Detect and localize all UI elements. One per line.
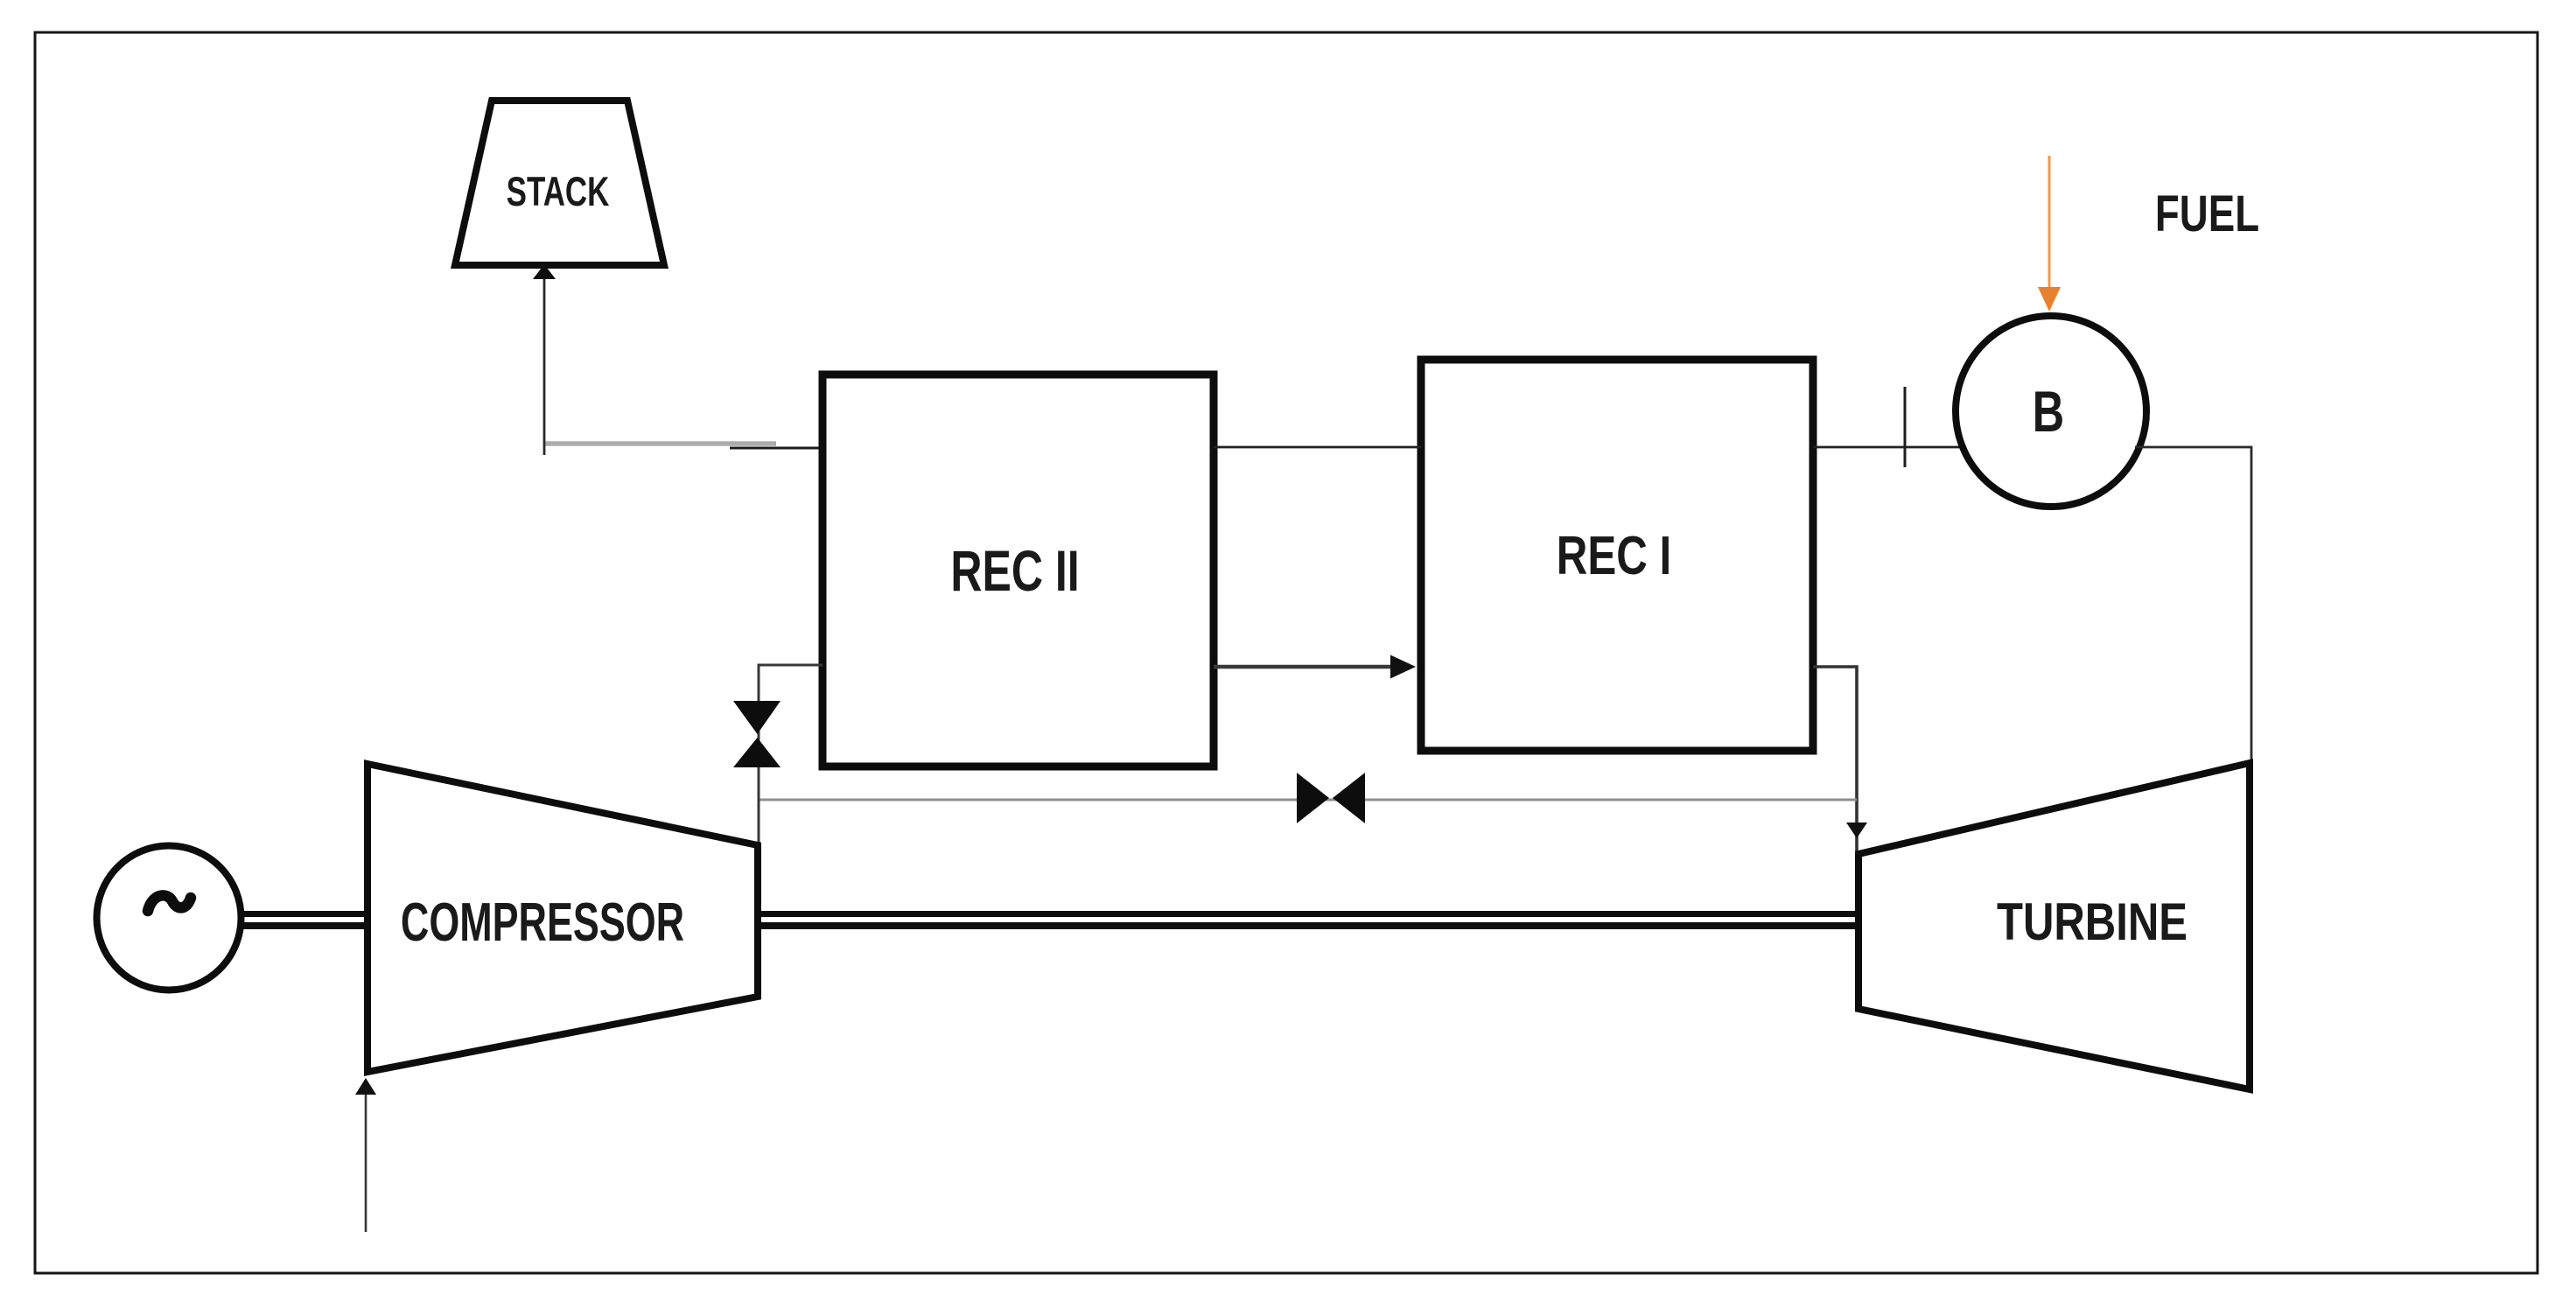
wire: REC I to burner B: [1813, 446, 1969, 449]
wire: REC II exhaust to stack (gray segment): [544, 441, 776, 446]
turbine (trapezoid): [1858, 763, 2250, 1089]
wire: burner B to turbine inlet: [2135, 447, 2251, 761]
bypass valve (horizontal bowtie): [1297, 773, 1329, 823]
wire: REC II to REC I (upper gas line): [1214, 446, 1421, 449]
arrowhead into turbine: [1846, 822, 1867, 838]
generator tilde: [148, 895, 191, 911]
heat exchanger REC II: [822, 374, 1214, 766]
svg-text:COMPRESSOR: COMPRESSOR: [401, 892, 684, 953]
compressor (trapezoid): [367, 764, 758, 1072]
svg-text:REC II: REC II: [950, 539, 1079, 603]
air inlet arrowhead: [355, 1078, 376, 1095]
svg-text:B: B: [2033, 381, 2064, 444]
wire: REC II to REC I (lower air line with arrow): [1214, 665, 1393, 669]
burner B (circle): [1956, 316, 2146, 507]
wire: REC I outlet down to turbine: [1813, 667, 1857, 852]
generator (circle with ~): [97, 846, 241, 990]
tick mark on burner inlet line: [1904, 387, 1907, 467]
bypass line (thin gray): [758, 799, 1857, 801]
shaft: compressor to turbine (double line): [758, 911, 1858, 917]
air inlet line: [365, 1094, 367, 1232]
arrowhead into REC I: [1390, 655, 1416, 679]
svg-text:REC I: REC I: [1557, 525, 1671, 586]
svg-text:TURBINE: TURBINE: [1997, 892, 2187, 951]
wire: compressor discharge riser to REC II: [759, 665, 822, 845]
wire: exhaust line into REC II (dark segment): [730, 447, 822, 450]
shaft: generator to compressor (double line): [240, 911, 367, 917]
FUEL arrow (orange): [2048, 156, 2051, 290]
svg-text:FUEL: FUEL: [2155, 186, 2259, 242]
arrowhead into stack: [533, 264, 556, 279]
stack (trapezoid): [455, 101, 664, 265]
svg-text:STACK: STACK: [507, 169, 610, 214]
discharge valve (vertical bowtie): [733, 701, 780, 734]
heat exchanger REC I: [1421, 360, 1813, 751]
wire: stack riser (vertical): [543, 278, 546, 455]
